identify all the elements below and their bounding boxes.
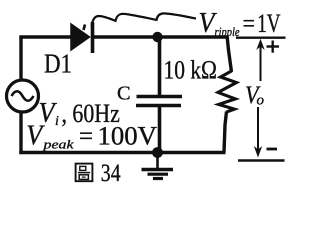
label Vi, 60Hz [39, 98, 120, 129]
svg-text:34: 34 [101, 160, 121, 187]
Vo annotation: down arrow [254, 107, 262, 158]
node: bottom junction dot [152, 147, 163, 158]
Vo annotation: top bar [236, 37, 286, 39]
svg-text:i: i [55, 114, 59, 129]
wire: capacitor bottom lead [158, 106, 162, 153]
diode D1 [71, 22, 93, 53]
svg-text:=: = [79, 121, 93, 150]
wire: left vertical (source bottom to bottom-left corner) [19, 112, 22, 154]
ground symbol [142, 153, 174, 179]
wire: top rail left segment (corner to diode anode) [19, 35, 72, 38]
resistor R 10k zigzag [218, 71, 237, 112]
AC source Vs [7, 80, 39, 112]
ripple waveform sketch [84, 13, 197, 30]
label Vripple = 1V [199, 8, 281, 39]
label figure 圖 glyph (drawn) [76, 164, 93, 182]
node: top junction dot [152, 32, 162, 42]
svg-text:o: o [257, 93, 265, 109]
wire: bottom rail [19, 151, 225, 154]
svg-text:D1: D1 [44, 49, 72, 79]
minus sign [267, 148, 278, 151]
label Vpeak = 100V [26, 120, 157, 151]
svg-text:100V: 100V [98, 121, 158, 150]
plus sign [267, 41, 280, 53]
label Vo [245, 82, 265, 109]
svg-text:=: = [243, 9, 256, 38]
svg-text:V: V [26, 120, 45, 151]
svg-text:10 kΩ: 10 kΩ [164, 56, 218, 85]
svg-text:1V: 1V [257, 9, 280, 38]
wire: top rail right segment (diode cathode to right corner) [93, 35, 228, 38]
capacitor C plates [136, 97, 182, 106]
wire: left vertical (source to top-left corner) [19, 37, 22, 80]
wire: resistor top lead (corner down to zigzag) [227, 35, 232, 72]
svg-text:peak: peak [42, 137, 73, 152]
wire: capacitor top lead [158, 37, 162, 95]
Vo annotation: up arrow [256, 39, 264, 81]
Vo annotation: bottom bar [238, 159, 285, 161]
wire: resistor bottom lead down to bottom rail [224, 112, 227, 153]
